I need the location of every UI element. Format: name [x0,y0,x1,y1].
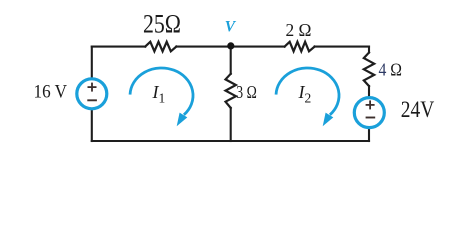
resistor 4Ω (R4) vertical zigzag [364,53,374,87]
svg-text:I2: I2 [298,82,312,106]
svg-text:4 Ω: 4 Ω [379,60,403,80]
V1 plus sign [88,83,97,92]
wire left upper segment (top to 16V source) [91,47,93,78]
svg-text:24V: 24V [401,97,435,122]
V1 minus sign [87,99,97,101]
wire right middle segment (4Ω to 24V source) [368,86,370,96]
svg-text:I1: I1 [152,82,166,106]
voltage source V1 16V circle [77,79,107,109]
V2 minus sign [366,117,376,119]
svg-text:16 V: 16 V [34,83,68,103]
wire top-right segment [315,46,369,48]
svg-text:2 Ω: 2 Ω [286,20,312,40]
wire top-middle segment [176,46,284,48]
svg-text:3 Ω: 3 Ω [236,82,256,102]
svg-text:V: V [225,18,237,35]
mesh current I2 arrowhead [323,113,334,127]
V2 plus sign [366,100,375,109]
wire top-left segment [92,46,145,48]
node V junction dot [227,42,234,49]
mesh current I1 arrow arc [130,68,193,115]
wire middle upper segment (node V down to 3Ω) [230,46,232,74]
resistor 25Ω (R1) zigzag [145,42,176,52]
resistor 2Ω (R2) zigzag [285,42,315,52]
wire bottom segment [92,140,369,142]
wire left lower segment (16V source to bottom) [91,110,93,141]
voltage source V2 24V circle [354,98,384,128]
mesh current I2 arrow arc [276,68,339,115]
svg-text:25Ω: 25Ω [143,9,181,38]
resistor 3Ω (R3) vertical zigzag [226,74,236,108]
wire right lower segment (24V source to bottom) [368,129,370,141]
wire right upper segment [368,47,370,53]
wire middle lower segment (3Ω to bottom) [230,108,232,141]
mesh current I1 arrowhead [177,113,188,127]
